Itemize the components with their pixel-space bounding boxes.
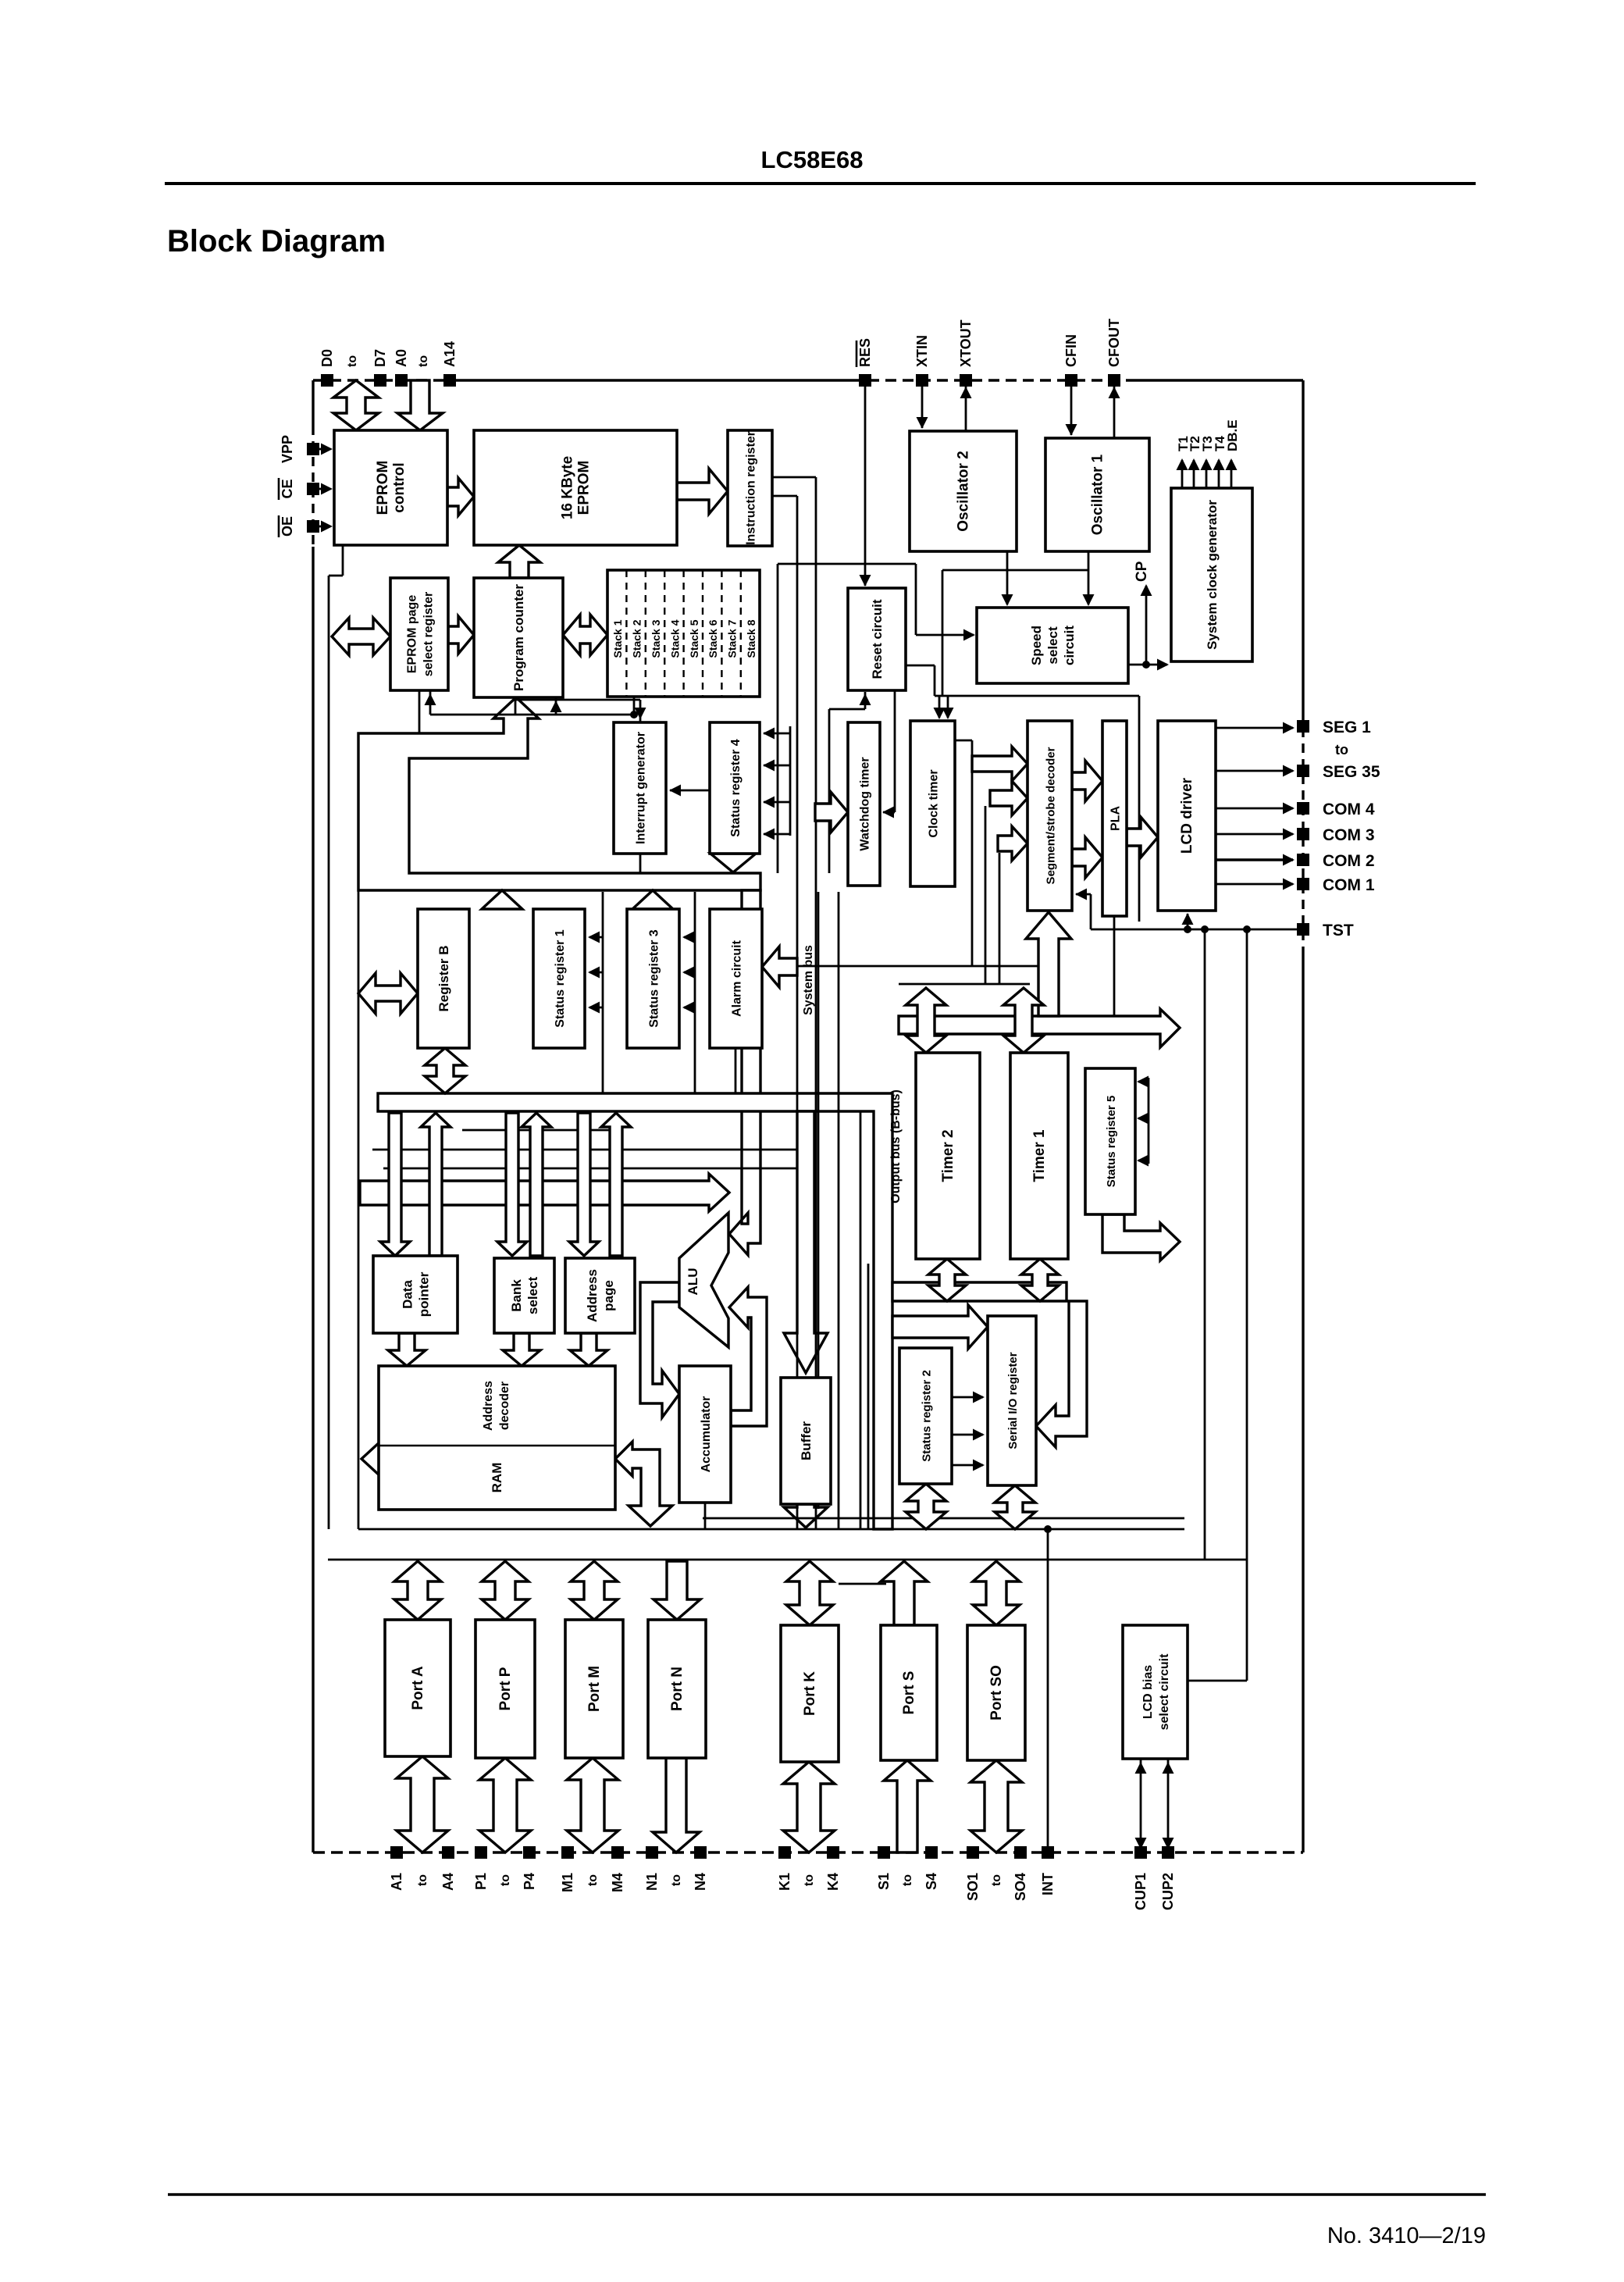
svg-text:Stack 7: Stack 7 — [726, 619, 739, 658]
wire: data bus lower line — [358, 1528, 1184, 1531]
wire: CUP2 link — [1163, 1759, 1174, 1852]
block arrow: serial I/O to data bus — [995, 1485, 1035, 1529]
svg-text:Status register 1: Status register 1 — [554, 929, 567, 1027]
pin SEG 35 (right) — [1297, 763, 1380, 781]
wire: RES line into reset circuit — [860, 380, 871, 587]
block arrow: port P top — [482, 1561, 529, 1620]
svg-text:Buffer: Buffer — [799, 1421, 814, 1460]
wire: left inner vertical rail — [328, 576, 330, 1529]
block arrow: status register 4 down to system bus — [710, 854, 756, 872]
block arrow: port M bottom — [567, 1758, 618, 1852]
svg-text:SO4: SO4 — [1013, 1873, 1028, 1901]
wire: status4 to interrupt generator arrow — [669, 785, 710, 797]
svg-text:to: to — [1335, 742, 1348, 758]
svg-text:No. 3410—2/19: No. 3410—2/19 — [1327, 2223, 1486, 2248]
svg-text:OE: OE — [280, 516, 295, 537]
svg-text:Register B: Register B — [436, 945, 451, 1011]
block port A — [385, 1620, 451, 1756]
pin CE (left) — [279, 478, 319, 500]
label to (bottom pins) — [586, 1874, 600, 1886]
bus: buffer top feed down-arrow — [784, 1111, 828, 1373]
wire: system bus vertical right line — [815, 477, 817, 1528]
svg-text:TST: TST — [1323, 922, 1354, 940]
block arrow: port S bottom (input) — [884, 1760, 931, 1852]
wire: OE stub into EPROM control — [319, 521, 333, 533]
svg-text:Stack 5: Stack 5 — [688, 619, 700, 658]
footer rule — [168, 2193, 1486, 2196]
wire: port feed line y1997 — [328, 1559, 1247, 1561]
wire: status register 3 feed rail — [682, 892, 695, 1093]
pin D7 (top) — [372, 349, 388, 387]
bus: RAM right-side arrow with down leg — [615, 1442, 672, 1526]
block stack 1-8 — [607, 570, 760, 697]
wire: reset bottom to watchdog — [882, 690, 895, 818]
block arrow: into segment decoder 1 — [972, 747, 1027, 781]
pin CUP2 (bottom) — [1160, 1846, 1176, 1910]
label T2 — [1188, 436, 1202, 451]
bus: status register 5 output arrow elbow — [1102, 1214, 1180, 1260]
bus: serial I/O right-side input arrow elbow — [1036, 1301, 1087, 1447]
svg-text:Oscillator 1: Oscillator 1 — [1090, 454, 1106, 535]
wire: instruction register to system bus upper — [772, 477, 816, 496]
block port M — [565, 1620, 623, 1758]
pin A1 (bottom) — [389, 1846, 404, 1891]
svg-text:EPROM: EPROM — [576, 461, 593, 515]
block EPROM control — [334, 430, 447, 545]
svg-text:CP: CP — [1134, 561, 1150, 582]
wire: status register 1 feed rail — [588, 892, 603, 1093]
pin COM 4 (right) — [1297, 800, 1375, 818]
wire: arrows into status register 4 right edge — [763, 728, 790, 840]
wire: oscillator 1 to speed select — [1083, 551, 1095, 606]
svg-text:SEG 35: SEG 35 — [1323, 763, 1380, 781]
svg-text:A4: A4 — [440, 1873, 456, 1891]
pin RES (top) — [857, 338, 873, 387]
block arrow: timer 1 to timer bus — [1003, 988, 1044, 1053]
block arrow: segment decoder to PLA lower — [1072, 837, 1102, 878]
svg-text:Program counter: Program counter — [511, 584, 526, 691]
svg-text:select: select — [525, 1277, 540, 1315]
svg-text:Block Diagram: Block Diagram — [167, 224, 386, 259]
svg-text:Port M: Port M — [586, 1666, 603, 1712]
pin VPP (left) — [280, 435, 319, 463]
svg-text:Instruction register: Instruction register — [745, 431, 758, 545]
wire: vertical x1102 — [860, 1111, 862, 1529]
wire: decoder feed vertical 3 — [999, 853, 1001, 984]
wire: status register 4 feed rail — [789, 726, 792, 836]
wire: port S top rail — [839, 1583, 886, 1585]
block arrow: page select left bidirectional — [332, 618, 390, 655]
wire: vertical x1597 to LCD bias — [1246, 929, 1248, 1681]
block arrow: B-bus into address page — [569, 1113, 599, 1256]
block timer 1 — [1010, 1053, 1068, 1259]
wire: PLA bottom vertical — [1113, 916, 1116, 1016]
pin D0 (top) — [319, 349, 335, 387]
wire: COM 2 line — [1216, 854, 1295, 866]
block arrow: system bus into alarm circuit — [762, 947, 797, 987]
svg-text:Address: Address — [482, 1381, 495, 1431]
wire: vertical x1074 — [838, 892, 840, 1529]
svg-text:CUP1: CUP1 — [1133, 1873, 1149, 1910]
wire: EPROM control bottom stub — [329, 545, 343, 576]
svg-text:M4: M4 — [610, 1873, 625, 1892]
wire: oscillator 2 to speed select — [1002, 551, 1013, 606]
svg-text:SO1: SO1 — [965, 1873, 981, 1901]
pin M4 (bottom) — [610, 1846, 625, 1892]
svg-text:page: page — [601, 1280, 616, 1311]
svg-text:decoder: decoder — [498, 1382, 511, 1430]
wire: horizontal y1260 — [899, 983, 1030, 986]
wire: decoder feed vertical 2 — [985, 806, 987, 984]
svg-text:to: to — [901, 1874, 914, 1886]
block arrow: port K bottom — [783, 1762, 835, 1852]
wire: decoder feed vertical 1 — [955, 740, 972, 966]
svg-text:Status register 2: Status register 2 — [921, 1370, 934, 1462]
wire: CP output — [1134, 561, 1152, 665]
svg-text:COM 2: COM 2 — [1323, 852, 1375, 870]
svg-text:Watchdog timer: Watchdog timer — [859, 757, 872, 850]
svg-text:XTIN: XTIN — [914, 335, 930, 367]
svg-text:XTOUT: XTOUT — [958, 319, 974, 367]
svg-text:D0: D0 — [319, 349, 335, 367]
top rule — [165, 182, 1476, 185]
block speed select circuit — [977, 608, 1128, 683]
pin N1 (bottom) — [644, 1846, 660, 1891]
bus: ALU output to accumulator elbow — [640, 1282, 679, 1417]
svg-text:Port K: Port K — [802, 1671, 818, 1716]
wire: feedback line y896 to interrupt generator — [515, 700, 646, 722]
bus: output bus B-bus (horizontal) + right leg down — [378, 1093, 892, 1529]
wire: oscillator branch to clock timer — [942, 570, 1088, 696]
svg-text:DB.E: DB.E — [1225, 419, 1240, 451]
svg-text:Stack 8: Stack 8 — [745, 619, 757, 658]
svg-text:Accumulator: Accumulator — [700, 1396, 713, 1473]
block arrow: timer 2 bottom — [928, 1259, 966, 1301]
pin XTIN (top) — [914, 335, 930, 387]
block data pointer — [373, 1256, 458, 1333]
wire: reset right feed — [906, 665, 935, 696]
svg-text:Clock timer: Clock timer — [928, 769, 941, 837]
block interrupt generator — [614, 722, 666, 854]
block PLA — [1102, 721, 1127, 916]
label to (SEG) — [1335, 742, 1348, 758]
block arrow: program counter to stack bidirectional — [563, 615, 607, 655]
svg-text:A14: A14 — [442, 341, 458, 367]
svg-text:Stack 3: Stack 3 — [650, 619, 662, 658]
svg-text:Output bus (B-bus): Output bus (B-bus) — [889, 1089, 903, 1203]
svg-text:Port SO: Port SO — [988, 1665, 1005, 1720]
pin S4 (bottom) — [924, 1846, 939, 1890]
pin INT (bottom) — [1040, 1846, 1056, 1895]
label to (bottom pins) — [901, 1874, 914, 1886]
block status register 5 — [1085, 1068, 1135, 1214]
wire: feedback line y915 with up arrows — [425, 690, 639, 718]
svg-text:A0: A0 — [394, 349, 409, 367]
wire: data bus second line — [703, 1517, 1184, 1520]
bus: buffer bottom down-arrow to data bus — [784, 1504, 828, 1528]
svg-text:S1: S1 — [876, 1873, 892, 1890]
pin COM 1 (right) — [1297, 876, 1375, 894]
wire: alarm to decoder horizontal y1237 — [762, 965, 1038, 968]
svg-text:control: control — [391, 462, 408, 512]
pin SO1 (bottom) — [965, 1846, 981, 1901]
svg-text:P1: P1 — [473, 1873, 489, 1890]
block arrow: port A top — [394, 1561, 441, 1620]
wire: vertical x1459 to LCD area — [1138, 696, 1141, 922]
wire: CPU enclosure left edge — [358, 890, 360, 1529]
svg-text:Speed: Speed — [1029, 626, 1044, 665]
svg-text:Oscillator 2: Oscillator 2 — [956, 451, 972, 532]
svg-text:to: to — [346, 355, 359, 367]
wire: serial enclosure left edge — [867, 1264, 870, 1529]
svg-text:Address: Address — [585, 1269, 600, 1322]
block EPROM page select register — [390, 578, 448, 690]
block status register 4 — [710, 722, 760, 854]
wire: clock timer top double arrows — [934, 696, 954, 719]
pin OE (left) — [279, 515, 319, 537]
svg-text:RES: RES — [857, 338, 873, 367]
svg-text:circuit: circuit — [1062, 626, 1077, 665]
block arrow: address page into address decoder — [570, 1333, 607, 1366]
block arrow: status register 1 up to system bus — [482, 890, 522, 909]
chip border bottom (dashed) — [313, 1851, 1303, 1853]
wire: XTIN into oscillator 2 — [917, 380, 928, 429]
wire: XTOUT from oscillator 2 — [960, 385, 972, 431]
pin A14 (top) — [442, 341, 458, 387]
wire: vertical x1173 — [915, 564, 917, 635]
block LCD driver — [1158, 721, 1216, 911]
block status register 1 — [533, 909, 585, 1048]
block arrow: port M top — [571, 1561, 618, 1620]
pin SEG 1 (right) — [1297, 718, 1371, 736]
block port S — [881, 1625, 937, 1760]
svg-text:Bank: Bank — [509, 1279, 524, 1312]
wire: status register 5 right feed — [1137, 1076, 1149, 1167]
wire: vertical x1543 rail — [1204, 929, 1206, 1560]
pin CUP1 (bottom) — [1133, 1846, 1149, 1910]
chip border left — [312, 380, 314, 1852]
svg-text:Data: Data — [401, 1280, 415, 1309]
block arrow: port A bottom — [397, 1756, 448, 1852]
bus: ALU input arrow 2 from accumulator loop — [729, 1287, 767, 1426]
wire: system bus vertical left line — [796, 496, 799, 1528]
block clock timer — [910, 721, 955, 886]
pin S1 (bottom) — [876, 1846, 892, 1890]
wire: arrow into segment decoder right edge — [1075, 889, 1091, 930]
svg-text:Stack 6: Stack 6 — [707, 619, 719, 658]
svg-text:K1: K1 — [777, 1873, 792, 1891]
pin A0 (top) — [394, 349, 409, 387]
svg-text:Reset circuit: Reset circuit — [870, 599, 885, 679]
svg-text:LCD bias: LCD bias — [1141, 1665, 1155, 1719]
block status register 3 — [627, 909, 679, 1048]
block program counter — [474, 578, 563, 697]
block arrow: status register 3 up to system bus — [632, 890, 673, 909]
bus: timer data bus with right arrowhead — [899, 1009, 1180, 1047]
block arrow: D0-D7 data to EPROM control — [333, 380, 379, 430]
svg-text:select register: select register — [422, 592, 436, 677]
svg-text:Timer 2: Timer 2 — [940, 1129, 956, 1182]
block address decoder / RAM — [379, 1366, 615, 1510]
svg-text:Serial I/O register: Serial I/O register — [1006, 1352, 1020, 1449]
svg-text:ALU: ALU — [686, 1268, 700, 1296]
wire: system clock generator T1-T4 DB.E outputs — [1177, 458, 1238, 488]
wire: page select bottom to L-bus — [418, 690, 421, 733]
block segment/strobe decoder — [1027, 721, 1072, 911]
svg-text:COM 1: COM 1 — [1323, 876, 1375, 894]
title LC58E68 — [761, 146, 864, 173]
block timer 2 — [916, 1053, 980, 1259]
svg-text:COM 3: COM 3 — [1323, 826, 1375, 844]
svg-text:Status register 3: Status register 3 — [648, 929, 661, 1027]
svg-text:to: to — [990, 1874, 1003, 1886]
label DB.E — [1225, 419, 1240, 451]
pin P4 (bottom) — [522, 1846, 537, 1890]
block arrow: B-bus into data pointer — [380, 1113, 410, 1256]
block arrow: address page to B-bus — [601, 1113, 631, 1256]
wire: speed select to system clock generator — [1128, 659, 1169, 671]
wire: COM 1 line — [1216, 879, 1295, 890]
wire: accumulator bottom stub — [704, 1503, 707, 1529]
pin K1 (bottom) — [777, 1846, 792, 1891]
label to (bottom pins) — [990, 1874, 1003, 1886]
svg-text:EPROM page: EPROM page — [406, 595, 419, 674]
svg-text:Alarm circuit: Alarm circuit — [731, 940, 744, 1016]
bus: system bus right leg + ALU input arrow 1 — [729, 890, 760, 1255]
block bank select — [494, 1258, 554, 1333]
block arrow: status register 2 to data bus — [906, 1484, 946, 1529]
block port SO — [967, 1625, 1025, 1760]
wire: VPP stub into EPROM control — [319, 444, 333, 455]
svg-text:N4: N4 — [693, 1873, 708, 1891]
label to (bottom pins) — [803, 1874, 816, 1886]
bus: segment/strobe decoder bottom up-arrow + shaft — [1026, 912, 1071, 1016]
wire: CE stub into EPROM control — [319, 483, 333, 495]
block arrow: page select to program counter — [448, 616, 474, 654]
svg-text:CE: CE — [280, 479, 295, 498]
footer page number No. 3410-2/19 — [1327, 2223, 1486, 2248]
wire: SEG 1 line — [1216, 722, 1295, 734]
block 16 KByte EPROM — [474, 430, 677, 545]
label to (bottom pins) — [416, 1874, 429, 1886]
block alarm circuit — [710, 909, 762, 1048]
svg-text:CUP2: CUP2 — [1160, 1873, 1176, 1910]
block arrow: bank select into address decoder — [503, 1333, 540, 1366]
svg-text:to: to — [417, 355, 430, 367]
wire: vertical x1048 — [817, 892, 820, 1509]
block arrow: bank select to B-bus — [522, 1113, 551, 1256]
svg-text:Segment/strobe decoder: Segment/strobe decoder — [1045, 747, 1058, 884]
svg-text:System bus: System bus — [802, 945, 815, 1015]
svg-text:Stack 4: Stack 4 — [668, 619, 681, 658]
chip border right — [1302, 380, 1304, 1852]
svg-text:Status register 4: Status register 4 — [729, 739, 743, 836]
pin K4 (bottom) — [825, 1846, 841, 1891]
label T3 — [1200, 436, 1215, 451]
block arrow: register B to B-bus — [425, 1048, 465, 1093]
block arrow: PLA to LCD driver — [1127, 817, 1158, 858]
svg-text:P4: P4 — [522, 1873, 537, 1890]
svg-text:CFIN: CFIN — [1063, 334, 1079, 367]
label T4 — [1213, 436, 1227, 451]
block arrow: segment decoder to PLA upper — [1072, 761, 1102, 801]
block arrow: port K top — [786, 1561, 833, 1625]
svg-text:16 KByte: 16 KByte — [560, 456, 576, 519]
svg-text:RAM: RAM — [490, 1463, 504, 1493]
svg-text:EPROM: EPROM — [375, 461, 391, 515]
bus: timer lower channel — [892, 1282, 1067, 1301]
block arrow: timer 2 to timer bus — [906, 988, 946, 1053]
block arrow: port N bottom (output) — [653, 1758, 700, 1852]
block arrow: A0-A14 address into EPROM control — [397, 380, 443, 430]
heading Block Diagram — [167, 224, 386, 259]
bus: operand bus into ALU with right arrowhead — [360, 1174, 729, 1211]
bus: serial I/O input arrow from B-bus leg — [892, 1305, 988, 1349]
block instruction register — [728, 430, 772, 546]
svg-text:to: to — [670, 1874, 683, 1886]
block accumulator — [679, 1366, 731, 1503]
svg-text:K4: K4 — [825, 1873, 841, 1891]
wire: thin lines y1447 y1472 y1496 — [372, 1130, 798, 1168]
svg-text:INT: INT — [1040, 1873, 1056, 1895]
svg-text:D7: D7 — [372, 349, 388, 367]
svg-text:Port A: Port A — [410, 1666, 426, 1710]
block status register 2 — [899, 1348, 952, 1484]
label system bus — [802, 945, 815, 1015]
block oscillator 2 — [910, 431, 1017, 551]
svg-text:select circuit: select circuit — [1158, 1653, 1171, 1731]
wire: status register 2 to serial I/O arrows — [952, 1392, 985, 1471]
wire: CUP1 link — [1135, 1759, 1147, 1852]
pin COM 2 (right) — [1297, 852, 1375, 870]
svg-text:to: to — [499, 1874, 512, 1886]
svg-text:LCD driver: LCD driver — [1179, 777, 1195, 854]
block oscillator 1 — [1045, 438, 1149, 551]
block watchdog timer — [848, 722, 880, 886]
svg-text:Stack 2: Stack 2 — [631, 619, 643, 658]
block arrow: register B left bidirectional — [358, 973, 418, 1014]
wire: vertical rail x996 — [777, 564, 779, 873]
label to (D0-D7) — [346, 355, 359, 367]
pin CFOUT (top) — [1106, 319, 1122, 387]
wire: arrow into speed select left — [916, 629, 975, 641]
svg-text:to: to — [803, 1874, 816, 1886]
wire: interrupt generator bottom to system bus — [639, 854, 642, 873]
block arrow: port SO top — [973, 1561, 1020, 1625]
block serial I/O register — [988, 1316, 1036, 1485]
svg-text:to: to — [416, 1874, 429, 1886]
label to (bottom pins) — [499, 1874, 512, 1886]
block arrow: data pointer into address decoder — [388, 1333, 426, 1366]
bus: program counter L-bus + system bus (horizontal) — [358, 697, 760, 890]
block arrow: EPROM control to EPROM — [447, 478, 474, 515]
block arrow: port P bottom — [479, 1758, 531, 1852]
pin COM 3 (right) — [1297, 826, 1375, 844]
label to (A0-A14) — [417, 355, 430, 367]
block port P — [475, 1620, 535, 1758]
block arrow: port N top (input) — [654, 1561, 700, 1620]
block port K — [781, 1625, 839, 1762]
svg-text:System clock generator: System clock generator — [1205, 500, 1220, 650]
svg-text:SEG 1: SEG 1 — [1323, 718, 1371, 736]
svg-text:COM 4: COM 4 — [1323, 800, 1375, 818]
svg-text:S4: S4 — [924, 1873, 939, 1890]
block buffer — [781, 1378, 831, 1504]
wire: horizontal y722 reset link — [778, 563, 916, 565]
svg-text:select: select — [1045, 626, 1060, 665]
block arrow: data pointer to B-bus — [421, 1113, 451, 1256]
pin TST (right) — [1297, 922, 1354, 940]
